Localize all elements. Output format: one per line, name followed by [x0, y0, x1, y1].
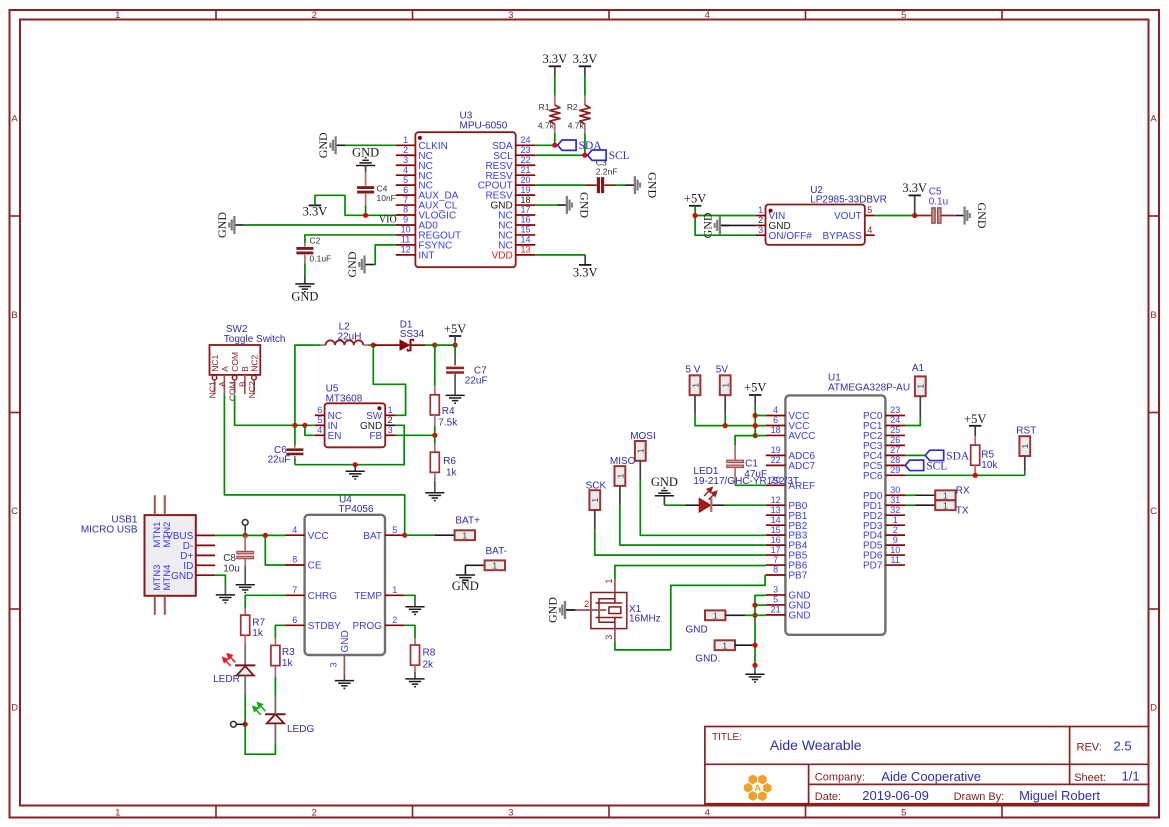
- svg-text:19: 19: [520, 185, 530, 195]
- svg-text:5: 5: [901, 10, 906, 21]
- wire CLKIN to GND: [345, 144, 396, 146]
- svg-text:Sheet:: Sheet:: [1074, 772, 1106, 784]
- svg-text:20: 20: [520, 175, 530, 185]
- svg-text:30: 30: [890, 485, 900, 495]
- pin 10 PD6: [863, 545, 905, 562]
- wire C1 top lead: [734, 445, 736, 459]
- svg-text:23: 23: [520, 145, 530, 155]
- svg-text:3: 3: [508, 807, 513, 818]
- net flag SDA at U1: [925, 450, 970, 462]
- svg-text:0.1uF: 0.1uF: [310, 254, 332, 264]
- wire R7 top lead: [244, 608, 246, 615]
- pin 29 PC6: [863, 465, 905, 482]
- pin 1 X1: [604, 579, 615, 593]
- svg-text:2.5: 2.5: [1114, 739, 1132, 754]
- power flag 3.3V VDD: [584, 255, 586, 265]
- svg-text:24: 24: [520, 135, 530, 145]
- svg-text:C: C: [1150, 506, 1157, 517]
- svg-text:16MHz: 16MHz: [629, 614, 661, 625]
- resistor R8: [411, 645, 420, 665]
- pin 6 STDBY: [285, 615, 341, 632]
- svg-text:1: 1: [722, 640, 727, 650]
- svg-text:C: C: [11, 506, 18, 517]
- svg-text:ON/OFF#: ON/OFF#: [769, 231, 813, 242]
- wire GND pin2 U2: [721, 224, 756, 226]
- pin 3 ON/OFF#: [756, 225, 813, 242]
- svg-text:GND.: GND.: [695, 654, 720, 665]
- svg-text:1: 1: [115, 10, 120, 21]
- svg-text:PB7: PB7: [788, 571, 807, 582]
- svg-text:21: 21: [520, 165, 530, 175]
- wire A1 to PC1: [919, 396, 921, 418]
- svg-text:BAT+: BAT+: [455, 516, 480, 527]
- wire VCC4: [755, 415, 766, 417]
- wire C5 to GND: [941, 215, 955, 217]
- capacitor C1: [727, 460, 744, 467]
- svg-text:3: 3: [508, 10, 513, 21]
- pin 11 FSYNC: [396, 235, 453, 252]
- svg-text:27: 27: [890, 445, 900, 455]
- wire C2 to ground: [304, 255, 306, 264]
- pin B SW2: [238, 366, 251, 395]
- wire C1 to AREF: [734, 468, 736, 486]
- wire R5 to PC6: [974, 465, 976, 475]
- wire X1 to PB7: [615, 575, 766, 650]
- wire circle to VBUS: [244, 525, 246, 531]
- connector BAT-: [485, 560, 505, 570]
- svg-text:5: 5: [773, 595, 778, 605]
- svg-text:8: 8: [403, 205, 408, 215]
- wire MOSI to PB3: [639, 461, 641, 481]
- wire VDD: [535, 254, 585, 256]
- pin 15 PB3: [766, 525, 808, 542]
- svg-text:A: A: [217, 381, 227, 387]
- svg-text:SCL: SCL: [609, 150, 630, 162]
- pin 16 NC: [498, 215, 535, 232]
- svg-text:15: 15: [771, 525, 781, 535]
- pin 3 GND U4 bottom: [329, 630, 351, 674]
- wire gnd to C4: [365, 166, 367, 172]
- switch SW2 body: [210, 345, 261, 375]
- svg-text:22: 22: [520, 155, 530, 165]
- mcu U1 body: [785, 395, 885, 634]
- pin 1 SW: [366, 405, 395, 422]
- pin ID USB1: [183, 561, 215, 572]
- wire +5V to R4: [434, 345, 436, 386]
- svg-text:GND: GND: [686, 625, 708, 636]
- crystal X1: [591, 593, 627, 629]
- ground bars above C4: [356, 158, 375, 166]
- svg-text:13: 13: [520, 245, 530, 255]
- svg-text:19-217/GHC-YR1S2/3T: 19-217/GHC-YR1S2/3T: [693, 476, 799, 487]
- svg-text:2: 2: [403, 145, 408, 155]
- svg-text:1: 1: [388, 405, 393, 415]
- svg-text:1: 1: [115, 807, 120, 818]
- svg-text:12: 12: [401, 245, 411, 255]
- wire AD0: [244, 224, 396, 226]
- wire SDA: [535, 144, 555, 146]
- svg-text:Drawn By:: Drawn By:: [954, 791, 1005, 803]
- wire VBUS to C8: [244, 535, 246, 551]
- svg-text:VDD: VDD: [492, 250, 513, 261]
- svg-text:2: 2: [392, 615, 397, 625]
- svg-text:11: 11: [401, 235, 410, 245]
- capacitor C7: [446, 368, 464, 373]
- wire pin18 GND: [535, 204, 557, 206]
- pin 18 GND: [490, 195, 535, 212]
- svg-text:1: 1: [721, 383, 731, 388]
- svg-text:3: 3: [388, 425, 393, 435]
- svg-text:3.3V: 3.3V: [303, 205, 328, 219]
- wire C2 lead: [304, 243, 306, 247]
- wire CE: [265, 535, 285, 565]
- pin 5 VOUT: [834, 205, 875, 222]
- ground bars LED1: [655, 488, 674, 496]
- power flag +5V boost: [449, 335, 461, 337]
- svg-text:10: 10: [401, 225, 411, 235]
- svg-text:19: 19: [771, 445, 781, 455]
- svg-text:SCL: SCL: [926, 460, 947, 472]
- junction BAT: [402, 533, 407, 538]
- svg-text:16: 16: [771, 535, 781, 545]
- connector GND: [705, 610, 725, 620]
- svg-text:3.3V: 3.3V: [573, 52, 598, 66]
- svg-text:29: 29: [890, 465, 900, 475]
- svg-text:4: 4: [773, 405, 778, 415]
- svg-text:2: 2: [312, 807, 317, 818]
- svg-text:5: 5: [867, 205, 872, 215]
- connector A1: [915, 376, 926, 396]
- capacitor C4: [357, 188, 374, 193]
- pin 7 AUX_CL: [396, 195, 458, 212]
- svg-text:3.3V: 3.3V: [902, 181, 927, 195]
- pin 7 PB6: [766, 555, 808, 572]
- pin 11 PD7: [863, 555, 905, 572]
- wire R8 top lead: [414, 638, 416, 645]
- svg-text:1k: 1k: [446, 468, 458, 479]
- svg-text:4: 4: [705, 807, 710, 818]
- wire SCK to PB5: [594, 510, 596, 530]
- svg-text:A: A: [754, 783, 761, 793]
- ground U2 pin2: [700, 212, 729, 238]
- svg-text:MTN4: MTN4: [162, 565, 173, 591]
- svg-text:9: 9: [403, 215, 408, 225]
- junction VOUT: [912, 213, 917, 218]
- pin 12 PB0: [766, 495, 808, 512]
- ground C5: [955, 203, 989, 229]
- pin 20 AREF: [766, 475, 815, 492]
- pin 14 NC: [498, 235, 535, 252]
- capacitor C5: [932, 208, 941, 223]
- op-amp U3 body: [415, 132, 515, 267]
- svg-text:1/1: 1/1: [1122, 769, 1140, 784]
- pin 22 RESV: [485, 155, 535, 172]
- wire 5V conn 1: [694, 395, 696, 415]
- pin GND USB1: [171, 571, 215, 582]
- wire FB: [395, 434, 435, 436]
- junction D1 cathode: [432, 343, 437, 348]
- svg-text:COM: COM: [227, 381, 237, 401]
- capacitor C8: [237, 551, 254, 558]
- wire X1 pin2 to gnd: [566, 609, 576, 611]
- svg-text:TX: TX: [956, 505, 969, 516]
- svg-text:16: 16: [520, 215, 530, 225]
- pin VBUS USB1: [166, 531, 215, 542]
- pin 5 NC: [396, 175, 433, 192]
- svg-text:4: 4: [867, 225, 872, 235]
- svg-text:3: 3: [403, 155, 408, 165]
- svg-text:GND: GND: [316, 132, 330, 158]
- led arrows LED1: [704, 488, 717, 500]
- svg-text:GND: GND: [975, 203, 989, 229]
- pin 18 AVCC: [766, 425, 816, 442]
- pin 2 X1: [576, 599, 607, 610]
- svg-text:SS34: SS34: [400, 329, 425, 340]
- pin 4 NC: [396, 165, 433, 182]
- wire C7 to ground: [454, 373, 456, 396]
- junction SDA: [552, 143, 557, 148]
- wire X1 to PB6: [615, 566, 766, 580]
- wire R8 to ground: [414, 665, 416, 672]
- svg-text:MICRO USB: MICRO USB: [81, 524, 138, 535]
- wire TEMP to ground: [405, 595, 415, 601]
- pin 1 CLKIN: [396, 135, 448, 152]
- pin 16 PB4: [766, 535, 808, 552]
- svg-text:15: 15: [520, 225, 530, 235]
- pin 3 GND: [766, 585, 811, 602]
- pin 10 REGOUT: [396, 225, 461, 242]
- junction GND.: [752, 643, 757, 648]
- wire stem TEMP: [414, 601, 416, 607]
- ground TEMP: [405, 607, 424, 615]
- svg-text:6: 6: [403, 185, 408, 195]
- pin A SW2: [217, 366, 230, 395]
- svg-text:COM: COM: [230, 352, 240, 372]
- junction AVCC: [753, 433, 758, 438]
- junction FB: [432, 433, 437, 438]
- svg-text:EN: EN: [328, 431, 342, 442]
- pin 4 BYPASS: [823, 225, 875, 242]
- resistor R5: [974, 426, 976, 445]
- pin D+ USB1: [180, 551, 215, 562]
- svg-text:1: 1: [943, 490, 948, 500]
- svg-text:1: 1: [893, 515, 898, 525]
- net flag SCL at U1: [905, 460, 947, 472]
- led LED1: [699, 498, 711, 512]
- svg-text:17: 17: [771, 545, 781, 555]
- ground USB: [216, 595, 235, 603]
- wire +5V to C7: [454, 345, 456, 355]
- resistor R2: [580, 66, 590, 155]
- wire AREF: [735, 484, 766, 486]
- pin 24 PC1: [863, 415, 905, 432]
- ground X1: [546, 597, 575, 623]
- svg-text:2: 2: [388, 415, 393, 425]
- svg-text:5 V: 5 V: [685, 365, 700, 376]
- junction IN C6: [292, 423, 297, 428]
- resistor R6: [430, 452, 439, 472]
- wire +5V to VIN: [695, 215, 756, 217]
- wire PC6 RST: [905, 474, 1025, 476]
- wire GND21: [755, 614, 766, 616]
- pin 8 VLOGIC: [396, 205, 456, 222]
- svg-text:R8: R8: [423, 647, 436, 658]
- svg-text:4: 4: [317, 425, 322, 435]
- wire FB to R6: [434, 435, 436, 443]
- svg-text:ADC7: ADC7: [788, 461, 815, 472]
- wire C3 right lead: [604, 184, 615, 186]
- wire to VCC pin6: [725, 425, 766, 427]
- svg-text:22uH: 22uH: [338, 332, 362, 343]
- svg-text:2: 2: [893, 525, 898, 535]
- wire U5 GND pin2 down: [355, 425, 404, 464]
- svg-text:8: 8: [773, 565, 778, 575]
- svg-text:SDA: SDA: [946, 450, 970, 462]
- svg-text:INT: INT: [418, 250, 434, 261]
- wire 3.3V to VLOGIC pin8: [315, 195, 396, 215]
- wire PD1 TX: [905, 504, 916, 506]
- pin 1 PD3: [863, 515, 905, 532]
- svg-text:Aide Wearable: Aide Wearable: [770, 737, 862, 753]
- pin NC1 SW2: [207, 355, 220, 399]
- svg-text:R7: R7: [252, 618, 265, 629]
- wire C3 left lead: [585, 184, 596, 186]
- ground AD0: [215, 212, 244, 238]
- wire SCL: [535, 154, 585, 156]
- inductor L2: [316, 340, 374, 345]
- svg-text:RST: RST: [1016, 426, 1036, 437]
- svg-text:32: 32: [890, 505, 900, 515]
- svg-text:GND: GND: [546, 597, 560, 623]
- svg-text:RX: RX: [956, 485, 970, 496]
- ground pin1 CLKIN: [316, 132, 345, 158]
- svg-text:1: 1: [462, 530, 467, 540]
- svg-text:8: 8: [292, 555, 297, 565]
- svg-text:MOSI: MOSI: [630, 431, 656, 442]
- pin 1 TEMP: [354, 585, 404, 602]
- pin COM SW2: [227, 352, 240, 401]
- wire node to LEDG: [245, 724, 275, 754]
- ground U4 pin3: [335, 681, 354, 689]
- pin 19 RESV: [485, 185, 535, 202]
- pin 6 VCC: [766, 415, 810, 432]
- wire SW to L2: [373, 345, 405, 415]
- junction L2 out: [371, 343, 376, 348]
- wire IN: [295, 424, 315, 426]
- pin 6 AUX_DA: [396, 185, 459, 202]
- svg-text:BYPASS: BYPASS: [823, 231, 863, 242]
- wire RST conn: [1024, 456, 1026, 471]
- regulator U2 body: [766, 205, 865, 245]
- wire IN to C6: [294, 425, 296, 445]
- svg-text:1: 1: [403, 135, 408, 145]
- svg-text:23: 23: [890, 405, 900, 415]
- wire PC4 SDA: [905, 454, 925, 456]
- svg-text:28: 28: [890, 455, 900, 465]
- svg-text:3: 3: [758, 225, 763, 235]
- svg-text:1: 1: [690, 383, 700, 388]
- svg-text:BAT: BAT: [363, 531, 382, 542]
- svg-text:9: 9: [893, 535, 898, 545]
- capacitor C3: [598, 177, 602, 193]
- svg-text:R3: R3: [282, 647, 295, 658]
- ground R8: [405, 679, 424, 687]
- pin 22 ADC7: [766, 455, 816, 472]
- svg-text:MPU-6050: MPU-6050: [460, 121, 508, 132]
- svg-text:GND: GND: [291, 289, 318, 303]
- power flag 3.3V VIO: [303, 205, 328, 219]
- pin 3 FB: [369, 425, 395, 442]
- svg-text:1: 1: [492, 561, 497, 571]
- svg-text:1k: 1k: [252, 628, 264, 639]
- wire CHRG to R7: [245, 595, 285, 608]
- svg-text:4.7k: 4.7k: [538, 120, 555, 130]
- pin 26 PC3: [863, 435, 905, 452]
- svg-text:14: 14: [520, 235, 530, 245]
- diode D1: [373, 339, 435, 351]
- pin 32 PD2: [863, 505, 905, 522]
- svg-text:7: 7: [292, 585, 297, 595]
- pin 5 IN: [315, 415, 338, 432]
- connector MOSI: [635, 441, 646, 461]
- ground R6: [425, 493, 444, 501]
- pin 23 SCL: [493, 145, 535, 162]
- svg-text:2019-06-09: 2019-06-09: [862, 788, 929, 803]
- svg-text:GND: GND: [171, 571, 193, 582]
- wire 5V conn 2: [724, 395, 726, 415]
- svg-text:4: 4: [705, 10, 710, 21]
- svg-text:22uF: 22uF: [268, 455, 291, 466]
- svg-text:C2: C2: [310, 236, 321, 246]
- svg-text:A: A: [1150, 113, 1157, 124]
- led arrows LEDR: [223, 654, 236, 666]
- resistor R7: [241, 615, 250, 635]
- pin 21 RESV: [485, 165, 535, 182]
- svg-text:17: 17: [520, 205, 530, 215]
- pin 2 GND: [756, 215, 791, 232]
- capacitor C6: [286, 450, 303, 454]
- svg-text:1: 1: [615, 473, 625, 478]
- pin 3 X1: [604, 629, 615, 642]
- wire REGOUT to C2: [305, 235, 396, 243]
- svg-text:26: 26: [890, 435, 900, 445]
- svg-text:6: 6: [292, 615, 297, 625]
- svg-text:PD7: PD7: [863, 561, 883, 572]
- svg-text:A1: A1: [912, 363, 925, 374]
- wire SW2-A to BAT+: [224, 394, 404, 535]
- junction VIO: [363, 213, 368, 218]
- svg-text:1: 1: [943, 500, 948, 510]
- wire C8 to ground: [244, 559, 246, 566]
- pin 8 CE: [285, 555, 322, 572]
- svg-text:+5V: +5V: [744, 381, 766, 395]
- wire USB GND: [215, 575, 225, 585]
- svg-text:PC6: PC6: [863, 471, 883, 482]
- svg-text:GND: GND: [345, 251, 359, 277]
- resistor R3: [271, 645, 280, 665]
- svg-text:MISO: MISO: [610, 456, 636, 467]
- pin 21 GND: [766, 605, 811, 622]
- svg-text:REV:: REV:: [1077, 742, 1102, 754]
- wire circle to LED node: [236, 723, 245, 725]
- svg-text:7: 7: [773, 555, 778, 565]
- svg-text:MTN2: MTN2: [162, 522, 173, 548]
- svg-text:4: 4: [292, 525, 297, 535]
- junction VBUS C8: [243, 533, 248, 538]
- wire CPOUT to C3: [535, 184, 585, 186]
- svg-text:3.3V: 3.3V: [542, 52, 567, 66]
- junction ground rail: [353, 462, 358, 467]
